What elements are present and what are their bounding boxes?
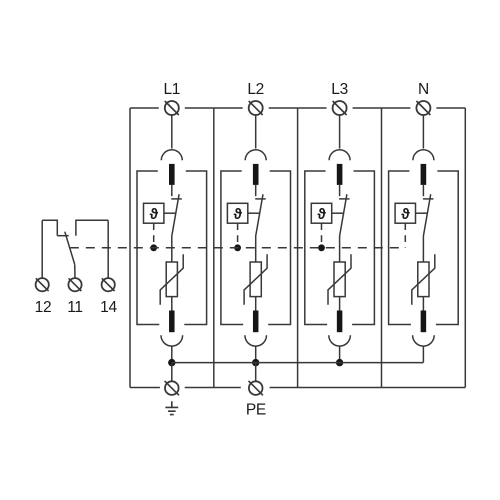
dashed link theta box to trip linkage (L2) bbox=[237, 223, 239, 248]
plug-in contact blade bottom (N) bbox=[421, 311, 427, 333]
temperature monitor theta box (N) bbox=[395, 203, 415, 223]
svg-text:14: 14 bbox=[100, 299, 117, 316]
terminal L1 screw terminal bbox=[165, 101, 179, 115]
svg-text:L1: L1 bbox=[163, 81, 180, 98]
junction dot on PE bus (L1) bbox=[168, 359, 175, 366]
junction dot on PE bus (L2) bbox=[252, 359, 259, 366]
terminal 11 wire up bbox=[74, 264, 76, 278]
wire blade to thermal disconnector (L2) bbox=[255, 185, 257, 196]
contact 12 fixed contact tick bbox=[57, 235, 68, 237]
wire theta box to switch blade (N) bbox=[416, 212, 428, 214]
terminal 11 screw terminal bbox=[68, 278, 81, 291]
thermal disconnector fixed contact tick (L1) bbox=[171, 198, 182, 200]
wire theta box to switch blade (L1) bbox=[164, 212, 176, 214]
terminal 12 wire up bbox=[41, 220, 43, 278]
svg-text:ϑ: ϑ bbox=[317, 207, 326, 223]
temperature monitor theta box (L1) bbox=[144, 203, 164, 223]
wire L2 terminal to plug contact bbox=[255, 115, 257, 149]
enclosure top edge / supply bus with gaps at terminals bbox=[130, 107, 159, 109]
changeover contact blade bbox=[65, 232, 75, 265]
plug-in contact socket arc top (L3) bbox=[329, 150, 350, 161]
plug-in contact socket arc bottom (L3) bbox=[329, 335, 351, 346]
svg-text:12: 12 bbox=[35, 299, 52, 316]
module inner box (L2) bbox=[221, 171, 291, 325]
wire varistor to bottom blade (L1) bbox=[171, 297, 173, 311]
enclosure bottom edge with gaps at earth and PE terminals bbox=[130, 387, 160, 389]
terminal L3 screw terminal bbox=[333, 101, 347, 115]
thermal disconnector switch blade (L1) bbox=[172, 194, 179, 236]
wire L1 terminal to plug contact bbox=[171, 115, 173, 149]
dashed link theta box to trip linkage (L1) bbox=[153, 223, 155, 248]
plug-in contact blade top (N) bbox=[421, 164, 427, 185]
plug-in contact blade bottom (L1) bbox=[169, 311, 175, 333]
junction dot on trip linkage (L2) bbox=[234, 244, 241, 251]
svg-text:11: 11 bbox=[67, 299, 83, 316]
wire switch to varistor (L1) bbox=[171, 236, 173, 262]
mechanical trip linkage dashed line bbox=[70, 247, 406, 249]
wire switch to varistor (L3) bbox=[339, 236, 341, 262]
wire theta box to switch blade (L3) bbox=[332, 212, 344, 214]
varistor body (N) bbox=[418, 262, 429, 297]
junction dot on trip linkage (L3) bbox=[318, 244, 325, 251]
wire blade to thermal disconnector (N) bbox=[422, 185, 424, 196]
thermal disconnector switch blade (L3) bbox=[340, 194, 347, 236]
plug-in contact socket arc bottom (N) bbox=[413, 335, 435, 346]
plug-in contact blade top (L3) bbox=[337, 164, 343, 185]
terminal 14 wire up bbox=[107, 220, 109, 278]
module inner box (L3) bbox=[305, 171, 375, 325]
wire N terminal to plug contact bbox=[422, 115, 424, 149]
wire varistor to bottom blade (L3) bbox=[339, 297, 341, 311]
wire L3 terminal to plug contact bbox=[339, 115, 341, 149]
wire socket to PE bus (L3) bbox=[339, 346, 341, 363]
PE bus wire bbox=[172, 362, 424, 364]
varistor body (L3) bbox=[334, 262, 345, 297]
thermal disconnector switch blade (N) bbox=[423, 194, 430, 236]
svg-text:L2: L2 bbox=[247, 81, 264, 98]
contact 14 fixed contact hook bbox=[76, 220, 108, 235]
varistor body (L1) bbox=[166, 262, 177, 297]
channel divider 1 bbox=[213, 108, 215, 388]
svg-text:ϑ: ϑ bbox=[234, 207, 243, 223]
plug-in contact socket arc top (N) bbox=[413, 150, 434, 161]
earth screw terminal bbox=[165, 381, 179, 395]
channel divider 2 bbox=[297, 108, 299, 388]
enclosure outer box right edge bbox=[464, 108, 466, 388]
contact 12 fixed contact hook bbox=[42, 220, 57, 235]
wire switch to varistor (N) bbox=[422, 236, 424, 262]
varistor diagonal stroke (L2) bbox=[244, 254, 267, 305]
wire socket to PE bus (L1) bbox=[171, 346, 173, 363]
junction dot on PE bus (L3) bbox=[336, 359, 343, 366]
plug-in contact blade top (L2) bbox=[253, 164, 259, 185]
terminal 12 screw terminal bbox=[36, 278, 49, 291]
PE screw terminal bbox=[249, 381, 263, 395]
terminal N screw terminal bbox=[416, 101, 430, 115]
dashed link theta box to trip linkage (N) bbox=[404, 223, 406, 248]
thermal disconnector fixed contact tick (L3) bbox=[339, 198, 350, 200]
varistor diagonal stroke (N) bbox=[412, 254, 435, 305]
temperature monitor theta box (L2) bbox=[227, 203, 247, 223]
thermal disconnector switch blade (L2) bbox=[256, 194, 263, 236]
plug-in contact socket arc bottom (L1) bbox=[161, 335, 183, 346]
svg-text:L3: L3 bbox=[331, 81, 348, 98]
wire PE bus to earth terminal bbox=[171, 363, 173, 382]
varistor diagonal stroke (L1) bbox=[160, 254, 183, 305]
plug-in contact blade bottom (L2) bbox=[253, 311, 259, 333]
wire blade to thermal disconnector (L3) bbox=[339, 185, 341, 196]
terminal 14 screw terminal bbox=[102, 278, 115, 291]
plug-in contact blade bottom (L3) bbox=[337, 311, 343, 333]
plug-in contact blade top (L1) bbox=[169, 164, 175, 185]
varistor body (L2) bbox=[250, 262, 261, 297]
module inner box (N) bbox=[389, 171, 459, 325]
wire varistor to bottom blade (L2) bbox=[255, 297, 257, 311]
svg-text:ϑ: ϑ bbox=[150, 207, 159, 223]
varistor diagonal stroke (L3) bbox=[328, 254, 351, 305]
ground symbol bbox=[165, 401, 178, 414]
thermal disconnector fixed contact tick (N) bbox=[423, 198, 434, 200]
plug-in contact socket arc top (L1) bbox=[161, 150, 182, 161]
wire socket to PE bus (L2) bbox=[255, 346, 257, 363]
channel divider 3 bbox=[381, 108, 383, 388]
terminal L2 screw terminal bbox=[249, 101, 263, 115]
wire socket to PE bus (N) bbox=[422, 346, 424, 363]
thermal disconnector fixed contact tick (L2) bbox=[255, 198, 266, 200]
wire theta box to switch blade (L2) bbox=[248, 212, 260, 214]
module inner box (L1) bbox=[137, 171, 207, 325]
wire PE bus to PE terminal bbox=[255, 363, 257, 382]
wire switch to varistor (L2) bbox=[255, 236, 257, 262]
svg-text:N: N bbox=[418, 81, 429, 98]
dashed link theta box to trip linkage (L3) bbox=[321, 223, 323, 248]
plug-in contact socket arc bottom (L2) bbox=[245, 335, 267, 346]
svg-text:ϑ: ϑ bbox=[401, 207, 410, 223]
temperature monitor theta box (L3) bbox=[311, 203, 331, 223]
junction dot on trip linkage (L1) bbox=[150, 244, 157, 251]
wire varistor to bottom blade (N) bbox=[422, 297, 424, 311]
svg-text:PE: PE bbox=[246, 401, 266, 418]
wire blade to thermal disconnector (L1) bbox=[171, 185, 173, 196]
plug-in contact socket arc top (L2) bbox=[245, 150, 266, 161]
enclosure outer box left edge bbox=[129, 108, 131, 388]
